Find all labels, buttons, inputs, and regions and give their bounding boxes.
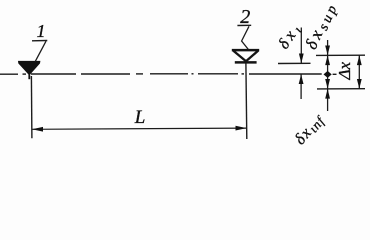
underline of label 2 bbox=[237, 24, 251, 26]
centerline (dash-dot axis) bbox=[0, 73, 337, 76]
delta x double arrow bbox=[358, 55, 360, 89]
arrowhead L left bbox=[32, 127, 43, 132]
delta x_i dimension arrow (down to level line) bbox=[300, 28, 302, 64]
svg-text:2: 2 bbox=[240, 6, 250, 28]
node point (actual axis position) bbox=[324, 71, 332, 78]
arrowhead L right bbox=[236, 126, 247, 131]
mark symbol 2 (open triangle on bar) bbox=[232, 50, 259, 62]
actual axis level line (point i) bbox=[278, 62, 311, 64]
arrowhead delta x inf (up, from label) bbox=[325, 89, 330, 99]
arrowhead up to sup line (from node) bbox=[325, 55, 330, 65]
nominal point vertical line bbox=[327, 40, 329, 111]
left extension line of L bbox=[30, 76, 33, 138]
svg-text:Δx: Δx bbox=[335, 62, 354, 81]
leader line of label 2 bbox=[242, 26, 249, 49]
dimension line L bbox=[32, 128, 246, 129]
delta x_i dimension arrow (up to centerline) bbox=[300, 74, 302, 99]
svg-text:L: L bbox=[134, 107, 146, 128]
arrowhead down to inf line (from node) bbox=[325, 79, 330, 89]
arrowhead delta x sup (down, from label) bbox=[325, 46, 330, 56]
svg-text:1: 1 bbox=[37, 21, 46, 41]
leader line of label 1 bbox=[35, 41, 46, 61]
upper limit line (sup) bbox=[316, 54, 365, 56]
apex stem of symbol 1 bbox=[28, 74, 30, 79]
lower limit line (inf) bbox=[317, 88, 365, 90]
mark symbol 1 (filled triangle) bbox=[18, 61, 40, 75]
underline of label 1 bbox=[32, 40, 47, 42]
stem of symbol 2 / right extension line of L bbox=[245, 64, 248, 140]
